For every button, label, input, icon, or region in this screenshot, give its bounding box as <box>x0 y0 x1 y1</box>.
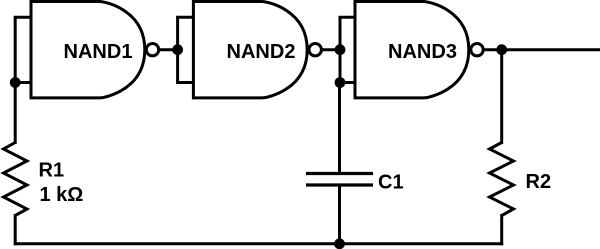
wire NAND2 output to NAND3 input <box>322 48 340 51</box>
wire NAND2 bottom input stub <box>176 81 194 84</box>
wire NAND3 input bus <box>339 17 342 82</box>
capacitor C1 top plate <box>306 172 373 175</box>
junction dot node GND rail / C1 <box>336 240 344 248</box>
NAND2 output inversion bubble <box>309 44 321 56</box>
wire R1 bottom lead to rail <box>14 214 17 245</box>
junction dot node A (NAND1 input / R1 top) <box>11 79 19 87</box>
wire NAND3 bottom input stub <box>339 81 356 84</box>
resistor R1 zigzag <box>4 143 28 216</box>
NAND1 output inversion bubble <box>146 44 158 56</box>
wire C1 top lead <box>338 83 341 174</box>
wire NAND1 output to NAND2 input <box>160 48 178 51</box>
junction dot node D (NAND3 input / C1 top) <box>336 79 344 87</box>
junction dot node B (NAND1 out / NAND2 in) <box>174 46 182 54</box>
wire NAND2 input bus <box>176 17 179 82</box>
wire node OUT down to R2 <box>500 50 503 144</box>
wire bottom rail <box>14 242 504 245</box>
svg-text:NAND2: NAND2 <box>227 41 296 63</box>
svg-text:R2: R2 <box>526 171 552 193</box>
svg-text:1 kΩ: 1 kΩ <box>40 184 84 206</box>
wire NAND3 output to right edge (circuit output) <box>484 48 600 51</box>
wire NAND1 bottom input stub <box>14 81 32 84</box>
wire NAND2 top input stub <box>176 16 194 19</box>
capacitor C1 bottom plate <box>306 183 373 186</box>
wire NAND1 input bus <box>14 17 17 144</box>
svg-text:NAND1: NAND1 <box>64 41 133 63</box>
nand-gate NAND3 body <box>355 2 469 98</box>
wire C1 bottom lead <box>338 185 341 244</box>
resistor R2 zigzag <box>490 143 514 216</box>
nand-gate NAND1 body <box>31 2 145 98</box>
svg-text:C1: C1 <box>378 171 404 193</box>
svg-text:R1: R1 <box>39 160 65 182</box>
nand-gate NAND2 body <box>193 2 307 98</box>
wire NAND3 top input stub <box>339 16 356 19</box>
NAND3 output inversion bubble <box>471 44 483 56</box>
wire R2 bottom lead to rail <box>500 214 503 245</box>
svg-text:NAND3: NAND3 <box>388 41 457 63</box>
junction dot node OUT (NAND3 out / R2 top) <box>498 46 506 54</box>
junction dot node C (NAND2 out / NAND3 in) <box>336 46 344 54</box>
wire NAND1 top input stub <box>14 16 32 19</box>
